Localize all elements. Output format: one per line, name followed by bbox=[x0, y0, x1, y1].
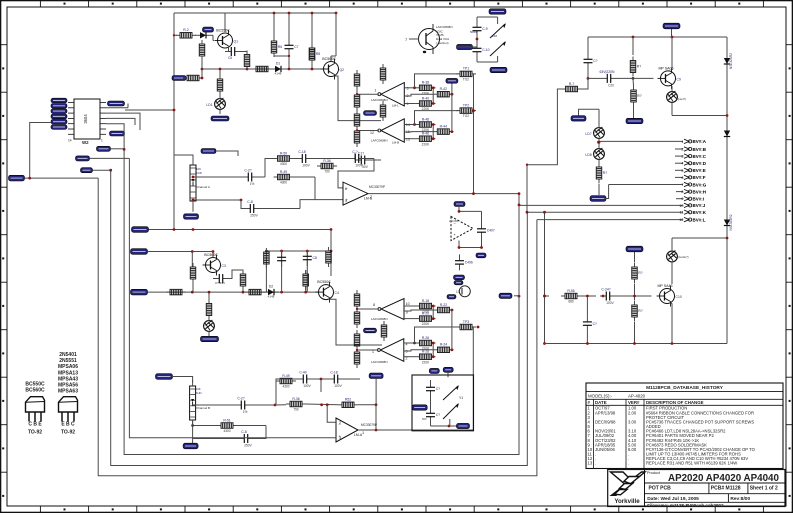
svg-text:17: 17 bbox=[456, 290, 460, 294]
LED LD9 under Q9 bbox=[667, 92, 678, 103]
svg-text:1: 1 bbox=[375, 89, 377, 93]
label bottom bbox=[447, 295, 456, 299]
capacitor C7 bbox=[288, 39, 290, 45]
resistor R7B bbox=[242, 270, 244, 274]
svg-text:APR/13/98: APR/13/98 bbox=[595, 410, 616, 415]
label near 634 bbox=[626, 118, 643, 123]
svg-text:LM-L: LM-L bbox=[392, 104, 399, 108]
svg-text:BV#:F: BV#:F bbox=[693, 175, 706, 180]
wire pot top from main bbox=[174, 155, 193, 160]
svg-text:R-49: R-49 bbox=[280, 170, 287, 174]
svg-text:R?: R? bbox=[603, 171, 607, 175]
wire to C4 collector bbox=[330, 230, 332, 277]
labels near bbox=[429, 368, 439, 373]
svg-text:C8: C8 bbox=[313, 256, 317, 260]
svg-text:Yorkville: Yorkville bbox=[614, 498, 640, 505]
svg-text:BV#:C: BV#:C bbox=[693, 154, 707, 159]
C4 emitter down bbox=[330, 299, 383, 345]
cap C2A bbox=[242, 176, 248, 178]
svg-text:PC#5736 TRACES CHANGED POT SUP: PC#5736 TRACES CHANGED POT SUPPORT SCREW… bbox=[646, 419, 754, 424]
feedback resistor R-48 bbox=[415, 124, 419, 126]
svg-text:1: 1 bbox=[101, 139, 103, 143]
svg-text:220K: 220K bbox=[422, 322, 430, 326]
svg-text:MC33079P: MC33079P bbox=[361, 423, 377, 427]
zener mid bbox=[726, 215, 728, 220]
mid right small part bbox=[726, 126, 728, 131]
svg-text:6: 6 bbox=[681, 176, 683, 180]
svg-text:BC560C: BC560C bbox=[322, 57, 336, 61]
svg-text:C7: C7 bbox=[294, 45, 298, 49]
resistor branch bbox=[632, 37, 634, 55]
capacitor C5 bbox=[225, 51, 231, 53]
svg-text:R-56: R-56 bbox=[567, 289, 574, 293]
svg-text:C-8: C-8 bbox=[247, 200, 253, 204]
svg-text:3.00: 3.00 bbox=[628, 419, 637, 424]
svg-text:DESCRIPTION OF CHANGE: DESCRIPTION OF CHANGE bbox=[646, 400, 704, 405]
svg-text:MPSA13: MPSA13 bbox=[58, 370, 78, 376]
svg-text:R?: R? bbox=[638, 309, 642, 313]
connector BV#:B bbox=[675, 148, 683, 150]
feedback resistor R-18 bbox=[416, 305, 420, 307]
connector BV#:K bbox=[527, 211, 683, 213]
IC W2 3604 ribbon bbox=[74, 99, 100, 139]
svg-text:500N: 500N bbox=[470, 30, 477, 34]
svg-text:63V|220N: 63V|220N bbox=[599, 70, 615, 74]
svg-text:AP-4020: AP-4020 bbox=[628, 393, 646, 398]
wire TP3 down bbox=[472, 334, 474, 430]
svg-text:MODEL(S):-: MODEL(S):- bbox=[588, 393, 613, 398]
svg-text:220K: 220K bbox=[422, 91, 430, 95]
left resistor column R27 bbox=[356, 127, 358, 131]
svg-text:100V: 100V bbox=[303, 384, 311, 388]
svg-text:7: 7 bbox=[370, 195, 372, 199]
svg-text:Q2: Q2 bbox=[340, 68, 345, 72]
IC right pin labels bbox=[108, 101, 125, 106]
resistor row B2 bbox=[217, 425, 221, 427]
bus wire 3 J bbox=[124, 149, 519, 454]
cap C-40 bbox=[297, 378, 303, 380]
label above dashed opamp bbox=[454, 202, 465, 207]
svg-text:R-48: R-48 bbox=[422, 117, 429, 121]
svg-text:Sheet 1 of 2: Sheet 1 of 2 bbox=[750, 486, 778, 492]
svg-text:TO2: TO2 bbox=[463, 78, 469, 82]
label bottom chain bbox=[590, 196, 606, 202]
svg-text:Q1: Q1 bbox=[234, 40, 239, 44]
resistor R5B bbox=[166, 291, 170, 293]
svg-text:5: 5 bbox=[345, 199, 347, 203]
svg-text:220K: 220K bbox=[422, 142, 430, 146]
resistor R-36B bbox=[286, 403, 290, 405]
connector BV#:E bbox=[675, 169, 683, 171]
resistor R7 bbox=[246, 51, 248, 55]
resistor under R branch bbox=[633, 86, 635, 90]
svg-text:LD8: LD8 bbox=[585, 153, 591, 157]
cap C5B bbox=[213, 278, 219, 280]
svg-text:LM-B: LM-B bbox=[392, 141, 399, 145]
wire top drops bbox=[273, 13, 275, 41]
svg-text:LM-06N: LM-06N bbox=[449, 219, 458, 223]
svg-text:C?/63V: C?/63V bbox=[215, 281, 225, 285]
limiter switch diagonals bbox=[490, 24, 505, 38]
output wires left bbox=[357, 93, 379, 95]
Y1 cap lower bbox=[430, 407, 432, 413]
feedback resistor R-46 bbox=[415, 138, 419, 140]
svg-text:MPSA06: MPSA06 bbox=[58, 364, 78, 370]
svg-text:R?: R? bbox=[637, 94, 641, 98]
svg-text:REPLACE R31 AND R51 WITH #6139: REPLACE R31 AND R51 WITH #6139 62K 1/4W bbox=[646, 461, 737, 466]
Y1 bottom wire bbox=[431, 425, 458, 427]
svg-text:100V: 100V bbox=[606, 301, 614, 305]
cap C-10b bbox=[328, 378, 334, 380]
label base bbox=[203, 27, 214, 32]
svg-text:13: 13 bbox=[588, 461, 593, 466]
svg-text:DATE: DATE bbox=[595, 400, 607, 405]
resistor RB1 bbox=[265, 248, 267, 252]
VCA cap block C9 C10 bbox=[477, 16, 498, 18]
output wires left B bbox=[357, 308, 379, 310]
svg-text:4300: 4300 bbox=[280, 162, 287, 166]
resistor TP1 bbox=[456, 73, 460, 75]
svg-text:C?: C? bbox=[436, 387, 440, 391]
resistor R52 bbox=[338, 404, 342, 406]
svg-text:R-22: R-22 bbox=[440, 303, 447, 307]
svg-text:R-51: R-51 bbox=[223, 418, 230, 422]
resistor TP2 bbox=[456, 110, 460, 112]
label AGND bbox=[364, 111, 377, 116]
resistor stack x634 bbox=[634, 252, 636, 263]
svg-text:(Quiet?): (Quiet?) bbox=[676, 97, 686, 101]
resistor R1 bbox=[183, 77, 187, 79]
svg-text:TP3: TP3 bbox=[463, 320, 469, 324]
wires A-cluster bbox=[404, 87, 415, 89]
svg-text:R-24: R-24 bbox=[440, 343, 447, 347]
svg-text:4300: 4300 bbox=[280, 181, 287, 185]
resistor RB3 bbox=[305, 270, 307, 274]
vertical resistor R24 bbox=[382, 101, 384, 105]
svg-text:TP1: TP1 bbox=[463, 67, 469, 71]
svg-text:C407: C407 bbox=[487, 229, 495, 233]
ruler tick marks bbox=[39, 1, 41, 8]
resistor R11 chain below bbox=[219, 75, 221, 79]
svg-text:LAFC0808N: LAFC0808N bbox=[436, 25, 453, 29]
svg-text:R?: R? bbox=[637, 65, 641, 69]
svg-text:LAFC0808N: LAFC0808N bbox=[371, 98, 388, 102]
vertical rails above C4 bbox=[265, 251, 267, 292]
LED LD1 bbox=[215, 99, 226, 110]
svg-text:1: 1 bbox=[681, 140, 683, 144]
svg-text:C3: C3 bbox=[222, 264, 226, 268]
svg-text:MC33079P: MC33079P bbox=[369, 185, 385, 189]
svg-text:C?: C? bbox=[593, 322, 597, 326]
transistor Q10 MPSA43 bbox=[660, 289, 675, 304]
transistor Q1 BC550C bbox=[218, 33, 233, 48]
label top right bbox=[663, 23, 680, 29]
transistor Q3 BC560C bbox=[206, 258, 221, 273]
svg-text:100V: 100V bbox=[334, 384, 342, 388]
svg-text:4300: 4300 bbox=[282, 385, 289, 389]
node input label IN-A bbox=[172, 76, 186, 81]
svg-text:Product: Product bbox=[647, 471, 661, 475]
Q2 emitter wire to opamp stage bbox=[335, 76, 382, 121]
input label B bbox=[131, 249, 148, 255]
svg-text:2: 2 bbox=[339, 421, 341, 425]
svg-text:R-2: R-2 bbox=[183, 28, 189, 32]
chain below B bbox=[208, 300, 210, 304]
svg-text:MPSA63: MPSA63 bbox=[58, 389, 78, 395]
svg-text:LAFC0808N: LAFC0808N bbox=[371, 317, 388, 321]
LM-B output wire to J bus bbox=[368, 193, 519, 195]
svg-text:BV#:A: BV#:A bbox=[693, 139, 707, 144]
transistor Q2 BC560C bbox=[324, 62, 339, 77]
resistor mid R-24 bbox=[434, 349, 438, 351]
title block bbox=[608, 470, 785, 507]
connector BV#:L bbox=[537, 219, 683, 221]
wires B-cluster bbox=[404, 124, 415, 126]
svg-text:JUN/05/06: JUN/05/06 bbox=[595, 447, 615, 452]
svg-text:POT PCB: POT PCB bbox=[649, 486, 672, 492]
svg-text:C-8: C-8 bbox=[241, 430, 247, 434]
svg-text:BV#:H: BV#:H bbox=[693, 189, 707, 194]
LED LD7 bbox=[594, 128, 605, 139]
cap C-8a bbox=[244, 208, 250, 210]
feedback resistor R-38 bbox=[415, 87, 419, 89]
svg-text:MP SA06: MP SA06 bbox=[658, 66, 673, 70]
wire left IC down bbox=[30, 123, 51, 179]
svg-text:C5: C5 bbox=[228, 56, 232, 60]
resistor R6 bbox=[273, 37, 275, 41]
IC left pin labels bbox=[51, 98, 67, 103]
svg-text:14: 14 bbox=[68, 139, 72, 143]
svg-text:(Audio?): (Audio?) bbox=[678, 255, 689, 259]
cap CB1 bbox=[281, 251, 283, 257]
svg-text:MPSA56: MPSA56 bbox=[58, 383, 78, 389]
potentiometer Channel B bbox=[190, 386, 196, 420]
svg-text:11: 11 bbox=[680, 211, 684, 215]
svg-text:R6: R6 bbox=[278, 45, 282, 49]
svg-text:Y1: Y1 bbox=[459, 396, 463, 400]
svg-text:50V: 50V bbox=[362, 165, 369, 169]
wire input B bbox=[148, 251, 192, 253]
svg-text:BV#:J: BV#:J bbox=[693, 203, 706, 208]
svg-text:BV#:G: BV#:G bbox=[693, 182, 707, 187]
svg-text:LIM: LIM bbox=[492, 34, 498, 38]
vertical junction wire bbox=[473, 74, 475, 194]
transistor Q9 MPSA06 bbox=[661, 71, 676, 86]
Q10 emitter bbox=[671, 302, 673, 304]
wire label to Y1 rail bbox=[447, 372, 449, 377]
svg-text:6.00: 6.00 bbox=[628, 447, 637, 452]
resistor R chain bbox=[598, 163, 600, 167]
svg-text:BV#:I: BV#:I bbox=[693, 197, 705, 202]
svg-text:2N5551: 2N5551 bbox=[59, 358, 77, 364]
transistor tiny Q bbox=[459, 286, 470, 297]
main wire channel A bbox=[202, 68, 325, 70]
svg-text:R-40: R-40 bbox=[422, 96, 429, 100]
connector BV#:D bbox=[675, 162, 683, 164]
svg-text:8: 8 bbox=[373, 303, 375, 307]
right LED chain vertical bbox=[598, 109, 600, 127]
svg-text:.: . bbox=[595, 461, 596, 466]
label IN mid bbox=[446, 78, 458, 83]
cap C-17a bbox=[349, 158, 355, 160]
svg-text:BC550C: BC550C bbox=[317, 280, 331, 284]
label and wire feedback to output row bbox=[369, 373, 383, 378]
label below pot bbox=[184, 214, 199, 219]
svg-text:2N5401: 2N5401 bbox=[59, 352, 77, 358]
svg-text:R?: R? bbox=[638, 271, 642, 275]
svg-text:C406: C406 bbox=[465, 261, 473, 265]
LM-A input wires bbox=[327, 405, 336, 422]
base feed row y35 bbox=[174, 34, 177, 36]
svg-text:AUD: AUD bbox=[196, 171, 202, 175]
resistor R5 bbox=[252, 68, 256, 70]
svg-text:C-9: C-9 bbox=[482, 27, 488, 31]
svg-text:1: 1 bbox=[362, 431, 364, 435]
svg-text:12: 12 bbox=[679, 218, 683, 222]
label bottom VCA bbox=[490, 67, 507, 72]
svg-text:100V: 100V bbox=[355, 164, 363, 168]
wire down right transistor bbox=[672, 237, 727, 239]
coupling cap right bbox=[601, 77, 607, 79]
svg-text:9: 9 bbox=[681, 197, 683, 201]
bus wire 2 bbox=[111, 170, 528, 465]
resistor R-36 bbox=[317, 165, 321, 167]
svg-text:R-36: R-36 bbox=[292, 397, 299, 401]
svg-text:100V: 100V bbox=[302, 164, 310, 168]
right top wire bbox=[588, 36, 727, 38]
svg-text:C10: C10 bbox=[676, 295, 682, 299]
potentiometer Channel A bbox=[190, 165, 196, 201]
resistor mid R-44 bbox=[433, 131, 437, 133]
svg-text:BC550C: BC550C bbox=[25, 382, 45, 388]
wire to opamp LM-B2 bbox=[315, 177, 343, 200]
label AGND B bbox=[364, 328, 377, 333]
svg-text:8: 8 bbox=[681, 190, 683, 194]
long wire OUT-A to right bbox=[132, 229, 331, 231]
bus wire 4 to LM-A input bbox=[129, 158, 260, 437]
feedback resistor R-20 bbox=[416, 318, 420, 320]
diode D2 bbox=[263, 291, 268, 293]
svg-text:6: 6 bbox=[345, 187, 347, 191]
opamp MC33079P LM-B bbox=[343, 182, 368, 205]
Y1 cap upper bbox=[430, 381, 432, 387]
svg-text:3604: 3604 bbox=[83, 114, 88, 124]
cap C8B bbox=[306, 250, 308, 256]
svg-text:AP2020 AP4020 AP4040: AP2020 AP4020 AP4040 bbox=[668, 473, 779, 484]
IC wires right bbox=[106, 107, 128, 109]
cap left low bbox=[586, 316, 588, 322]
svg-text:E B C: E B C bbox=[61, 422, 75, 428]
svg-text:MPSA43: MPSA43 bbox=[58, 376, 78, 382]
svg-text:BV#:L: BV#:L bbox=[693, 217, 706, 222]
svg-text:C B E: C B E bbox=[28, 422, 42, 428]
svg-text:R-38: R-38 bbox=[422, 81, 429, 85]
svg-text:C-2?: C-2? bbox=[244, 168, 251, 172]
svg-text:BC560C: BC560C bbox=[25, 388, 45, 394]
wire IC to main box left rail bbox=[125, 109, 174, 111]
svg-text:250V: 250V bbox=[244, 444, 252, 448]
svg-text:LAFC0808N: LAFC0808N bbox=[371, 139, 388, 143]
main wire channel B bbox=[131, 289, 148, 295]
LED LD8 bbox=[594, 149, 605, 160]
cap C-18a bbox=[296, 158, 302, 160]
left resistor column R21 bbox=[356, 70, 358, 74]
svg-text:BV#:K: BV#:K bbox=[693, 210, 707, 215]
bus labels under IC bbox=[97, 146, 111, 151]
cap C2B bbox=[235, 404, 241, 406]
vertical resistor RB bbox=[383, 321, 385, 325]
stepped wire from R to K bus bbox=[562, 88, 566, 90]
svg-text:PCB# M1128: PCB# M1128 bbox=[711, 486, 741, 492]
resistor RB2 bbox=[328, 247, 330, 251]
svg-text:R-?: R-? bbox=[569, 82, 575, 86]
svg-text:4: 4 bbox=[681, 162, 683, 166]
svg-text:DEC/09/98: DEC/09/98 bbox=[595, 419, 616, 424]
Yorkville logo bbox=[611, 472, 646, 495]
opamp U2B left-pointing bbox=[381, 119, 404, 142]
svg-text:3: 3 bbox=[406, 350, 408, 354]
svg-text:C20: C20 bbox=[608, 83, 614, 87]
main box top wire bbox=[174, 12, 336, 14]
dual VCA U3 upper bbox=[419, 29, 440, 50]
BV A feeder from LED chain bbox=[597, 141, 600, 144]
TO-92 package left bbox=[26, 397, 45, 412]
svg-text:220K: 220K bbox=[422, 360, 430, 364]
svg-text:Rev:8/00: Rev:8/00 bbox=[730, 496, 750, 502]
diode D3 bbox=[195, 34, 200, 36]
resistor column B bbox=[356, 290, 358, 294]
wire row y296 bbox=[545, 295, 550, 297]
LED LD10 bbox=[667, 251, 678, 262]
svg-text:Date: Wed Jul 19, 2005: Date: Wed Jul 19, 2005 bbox=[647, 496, 699, 502]
svg-text:4300: 4300 bbox=[223, 429, 230, 433]
svg-text:BV#:D: BV#:D bbox=[693, 161, 707, 166]
svg-text:NSL32SR2: NSL32SR2 bbox=[729, 53, 733, 69]
cap C-8B bbox=[238, 438, 244, 440]
svg-text:TO-92: TO-92 bbox=[28, 430, 42, 436]
label VREF bbox=[211, 116, 229, 121]
svg-text:250V: 250V bbox=[250, 214, 258, 218]
Y1 right label bbox=[457, 423, 470, 428]
resistor R2B bbox=[192, 263, 194, 267]
connector BV#:C bbox=[675, 155, 683, 157]
label left of chain bbox=[571, 116, 586, 121]
svg-text:VER#: VER# bbox=[628, 400, 640, 405]
resistor R6B bbox=[245, 291, 249, 293]
svg-text:4148: 4148 bbox=[268, 295, 275, 299]
left cap branch bbox=[587, 37, 589, 53]
dashed opamp frame wires bbox=[458, 207, 460, 211]
label to pot B bbox=[156, 374, 173, 380]
svg-text:LD1: LD1 bbox=[206, 103, 212, 107]
svg-text:R-42: R-42 bbox=[440, 87, 447, 91]
label below LD2 bbox=[201, 336, 219, 341]
svg-text:R-49: R-49 bbox=[282, 374, 289, 378]
wire across at 115 bbox=[672, 115, 727, 117]
svg-text:5: 5 bbox=[681, 169, 683, 173]
svg-text:C-18: C-18 bbox=[298, 150, 305, 154]
diode D1 bbox=[270, 68, 275, 70]
wire lower input bbox=[193, 199, 241, 201]
svg-text:C-10: C-10 bbox=[482, 48, 489, 52]
label left VCA bbox=[457, 44, 473, 49]
svg-text:.: . bbox=[628, 461, 629, 466]
svg-text:R8: R8 bbox=[316, 52, 320, 56]
svg-text:BV#:B: BV#:B bbox=[693, 147, 707, 152]
dashed opamp U5 bbox=[451, 217, 473, 241]
label mid bbox=[626, 246, 643, 252]
cap below dashed bbox=[459, 254, 461, 260]
